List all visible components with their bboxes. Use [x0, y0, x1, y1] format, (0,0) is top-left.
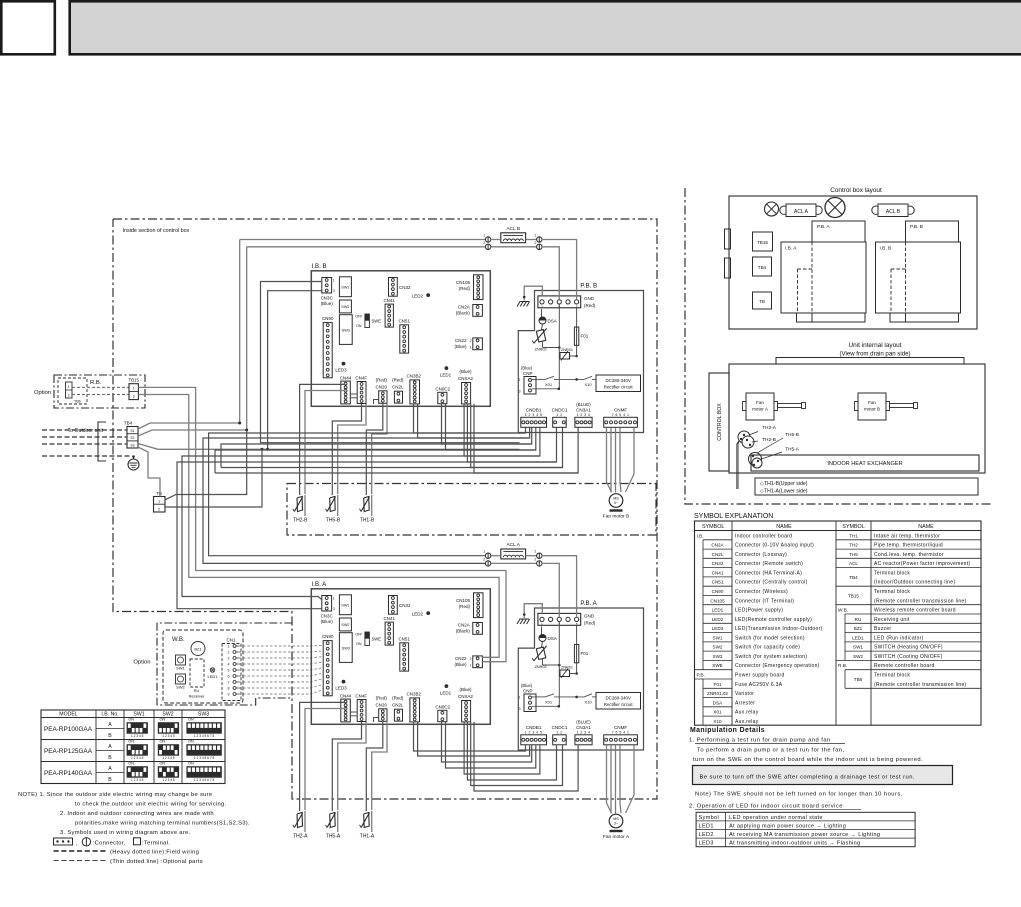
svg-text:Intake air temp. thermistor: Intake air temp. thermistor	[874, 533, 940, 539]
svg-text:Cond./eva. temp. thermistor: Cond./eva. temp. thermistor	[874, 552, 944, 558]
fan motor A wires	[607, 745, 612, 813]
svg-text:(Blue): (Blue)	[459, 687, 472, 692]
wire ACL A out1	[526, 555, 537, 557]
svg-text:1: 1	[158, 500, 160, 504]
wireless board W.B. option outline	[157, 623, 292, 705]
svg-text:Option: Option	[133, 659, 150, 665]
fan motor B wires	[607, 428, 612, 493]
svg-text:LED2: LED2	[712, 617, 724, 622]
svg-text:ACL A: ACL A	[794, 209, 809, 215]
svg-text:CN2L: CN2L	[392, 703, 404, 708]
svg-text:At transmitting indoor-outdoor: At transmitting indoor-outdoor units → F…	[729, 841, 860, 847]
svg-text:1: 1	[133, 387, 135, 391]
svg-text:1 2 3 4 5: 1 2 3 4 5	[525, 413, 543, 417]
svg-text:CN20: CN20	[376, 703, 388, 708]
terminal block TB15 (layout)	[753, 232, 773, 251]
svg-text:Fuse AC250V 6.3A: Fuse AC250V 6.3A	[735, 682, 783, 688]
stub CN20 (A)	[374, 718, 379, 723]
svg-text:7: 7	[228, 681, 230, 685]
svg-text:(Red): (Red)	[392, 377, 404, 382]
svg-text:A: A	[108, 722, 112, 728]
svg-text:TH5: TH5	[849, 552, 858, 557]
remote controller board R.B. option box	[54, 375, 145, 408]
page corner box	[1, 1, 55, 54]
svg-text:Manipulation Details: Manipulation Details	[690, 727, 765, 734]
svg-text:SW1: SW1	[341, 286, 349, 290]
fan motor A (layout)	[746, 393, 774, 420]
svg-text:NAME: NAME	[776, 524, 792, 530]
svg-text:Arrester: Arrester	[735, 700, 755, 706]
hinge left lower	[725, 258, 731, 278]
svg-text:SW1: SW1	[853, 645, 863, 650]
svg-text:Connector (Lossnay): Connector (Lossnay)	[735, 552, 787, 558]
svg-text:◇TH1-A(Lower side): ◇TH1-A(Lower side)	[760, 489, 808, 495]
connector CN3C (A)	[322, 596, 332, 612]
svg-text:CN90: CN90	[322, 316, 334, 321]
svg-text:1: 1	[519, 695, 521, 699]
wire S1 feed to ACL B	[239, 240, 241, 424]
connector CN105 (A)	[474, 593, 484, 618]
svg-text:DC280-340V: DC280-340V	[606, 378, 631, 383]
svg-text:F01: F01	[581, 651, 589, 656]
legend optional parts	[54, 860, 108, 862]
svg-text:CN2L: CN2L	[392, 385, 404, 390]
svg-text:Varistor: Varistor	[735, 691, 754, 697]
svg-text:TH1-B: TH1-B	[360, 518, 375, 524]
svg-text:1 2: 1 2	[556, 413, 562, 417]
svg-text:(Blue): (Blue)	[321, 619, 334, 624]
thermistor TH1-B	[371, 495, 373, 516]
svg-text:Rectifier circuit: Rectifier circuit	[604, 702, 634, 707]
switch SW1 (A)	[339, 595, 351, 615]
svg-text:CNMF: CNMF	[614, 725, 627, 730]
svg-text:1. Performing a test run for d: 1. Performing a test run for drain pump …	[689, 738, 831, 744]
svg-text:Buzzer: Buzzer	[874, 626, 891, 632]
svg-text:turn on the SWE on the control: turn on the SWE on the control board whi…	[693, 757, 923, 763]
svg-text:LED3: LED3	[699, 841, 714, 847]
svg-text:TB15: TB15	[757, 240, 768, 245]
svg-text:CN90: CN90	[712, 589, 724, 594]
svg-text:,: ,	[76, 841, 78, 847]
svg-text:Switch (for capacity code): Switch (for capacity code)	[735, 645, 800, 651]
connector CNDB1 (A)	[521, 735, 547, 745]
wire TB-2	[165, 449, 262, 507]
svg-text:TB4: TB4	[758, 265, 767, 270]
TH1 note box	[755, 478, 978, 495]
svg-text:(View from drain pan side): (View from drain pan side)	[839, 351, 910, 358]
svg-text:1 2 3 4 5 6 7 8: 1 2 3 4 5 6 7 8	[194, 756, 215, 760]
svg-text:LED1: LED1	[207, 674, 218, 679]
terminal block TB (layout)	[753, 292, 772, 309]
svg-text:CNDB1: CNDB1	[526, 407, 542, 412]
svg-text:Symbol: Symbol	[699, 815, 719, 821]
svg-text:X01: X01	[545, 700, 553, 705]
wire TB4 S1	[138, 423, 240, 429]
svg-text:Receiver: Receiver	[189, 694, 205, 699]
svg-text:(Thin dotted line) :Optional: (Thin dotted line) :Optional parts	[110, 859, 203, 865]
svg-text:P.B. B: P.B. B	[910, 224, 923, 230]
wire TH5-A leads	[332, 722, 361, 811]
svg-text:2. Operation of LED for indoor: 2. Operation of LED for indoor circuit b…	[689, 804, 843, 810]
connector CNDC1 (B)	[553, 417, 567, 427]
svg-text:ON: ON	[128, 740, 134, 744]
svg-text:(Red): (Red)	[584, 303, 596, 308]
board I.B. A (layout)	[781, 242, 866, 313]
svg-text:3. Symbols used in wiring diag: 3. Symbols used in wiring diagram above …	[60, 830, 191, 836]
svg-text:SYMBOL: SYMBOL	[702, 524, 724, 530]
svg-text:(Heavy dotted line):Field wiri: (Heavy dotted line):Field wiring	[110, 850, 199, 856]
wire TH2-A leads	[300, 702, 346, 811]
LED1 (A)	[445, 684, 449, 688]
svg-text:OFF: OFF	[355, 633, 363, 637]
wire TH2-B leads	[300, 384, 346, 495]
svg-text:SWE: SWE	[712, 663, 722, 668]
wire bundle I.B. B to P.B. B connectors	[414, 404, 526, 433]
reactor ACL B (layout)	[872, 206, 880, 214]
svg-text:2: 2	[534, 557, 536, 561]
svg-text:LED(Power supply): LED(Power supply)	[735, 608, 783, 614]
svg-text:LED1: LED1	[440, 372, 452, 377]
wire ACL A to terminals	[576, 609, 578, 618]
svg-text:Option: Option	[34, 390, 51, 396]
wire TH5-B leads	[332, 404, 361, 495]
symbol table outline	[695, 521, 982, 725]
svg-text::Terminal.: :Terminal.	[142, 841, 170, 847]
svg-text:Connector (0-10V Analog input): Connector (0-10V Analog input)	[735, 543, 814, 549]
aux relay X01 (A)	[532, 696, 545, 698]
terminal block TB6	[58, 378, 87, 404]
svg-text:To perform a drain pump or a t: To perform a drain pump or a test run fo…	[697, 747, 845, 753]
legend field wiring	[54, 850, 108, 852]
svg-text:ACL B: ACL B	[506, 226, 520, 232]
wire CNP pin3 (B)	[532, 388, 559, 390]
model DIP switch table	[41, 710, 225, 784]
legend connector symbols	[54, 838, 73, 845]
svg-text:3: 3	[333, 607, 335, 611]
svg-text:TH1-A: TH1-A	[360, 834, 375, 840]
connector CN51 (B)	[400, 325, 409, 353]
svg-text:4: 4	[228, 663, 230, 667]
connector CNMF (B)	[604, 417, 638, 427]
svg-text:3~: 3~	[614, 501, 618, 505]
svg-text:1: 1	[470, 664, 472, 668]
wire TB15-2 to I.B. A	[138, 395, 499, 658]
svg-text:CN44: CN44	[340, 694, 352, 699]
hinge left upper	[725, 229, 731, 249]
symbol table left rows	[703, 539, 732, 541]
svg-text:Rectifier circuit: Rectifier circuit	[604, 384, 634, 389]
aux relay X10 (B)	[575, 378, 578, 381]
wire ACL A out2	[537, 561, 542, 566]
svg-text:7 6 5 4 1: 7 6 5 4 1	[612, 730, 630, 734]
svg-text:(Blue): (Blue)	[321, 301, 334, 306]
wire TB6 to TB15	[72, 386, 129, 388]
thermistor TH5-B	[337, 495, 339, 516]
svg-text:GND: GND	[584, 614, 595, 619]
svg-text:I.B. B: I.B. B	[312, 263, 327, 270]
svg-text:R.B.: R.B.	[90, 380, 102, 386]
svg-text:P.B. B: P.B. B	[580, 283, 597, 290]
svg-text:SW2: SW2	[176, 685, 185, 690]
svg-text:CN3A1: CN3A1	[576, 725, 591, 730]
svg-text:ON: ON	[159, 718, 165, 722]
svg-text:ZNR02: ZNR02	[535, 348, 547, 352]
svg-text:CONTROL BOX: CONTROL BOX	[717, 403, 723, 441]
varistor ZNR01 (B)	[542, 341, 544, 348]
svg-text:CN51: CN51	[398, 319, 410, 324]
svg-text:Inside section of control box: Inside section of control box	[123, 228, 190, 234]
wire TH1-B leads	[366, 404, 383, 495]
capillary tube	[737, 441, 739, 489]
connector CN90 (A)	[323, 641, 332, 696]
control box side	[709, 373, 729, 471]
svg-text:I.B. No.: I.B. No.	[101, 712, 118, 718]
svg-text:TH5-B: TH5-B	[326, 518, 341, 524]
svg-text:CN2A: CN2A	[458, 305, 470, 310]
svg-text:ZNR01: ZNR01	[561, 666, 573, 670]
wire ACL A to P.B. A terminal 3	[542, 563, 560, 617]
svg-text:Remote controller board: Remote controller board	[874, 663, 935, 669]
svg-text:2: 2	[68, 394, 70, 398]
thermistor TH5-A	[337, 811, 339, 832]
wire ACL B to terminals	[576, 291, 578, 300]
svg-text:A: A	[108, 744, 112, 750]
svg-text:PEA-RP140GAA: PEA-RP140GAA	[44, 770, 93, 777]
svg-text:CNXA2: CNXA2	[458, 376, 474, 381]
svg-text:1 2 3 4 5: 1 2 3 4 5	[162, 778, 175, 782]
svg-text:P.B. A: P.B. A	[817, 224, 831, 230]
switch SW2 (A)	[339, 618, 351, 631]
arrester DSA (B)	[541, 309, 543, 317]
stub CN20 (B)	[374, 400, 379, 405]
svg-text:(Remote controller transmissio: (Remote controller transmission line)	[874, 682, 967, 688]
svg-text:S3: S3	[130, 443, 134, 447]
svg-text:9: 9	[228, 693, 230, 697]
svg-text:CN4F: CN4F	[355, 694, 367, 699]
svg-text:1 2 3 4 5: 1 2 3 4 5	[162, 734, 175, 738]
svg-text:Be sure to turn off the SWE af: Be sure to turn off the SWE after comple…	[700, 774, 915, 780]
svg-text:MODEL: MODEL	[59, 712, 78, 718]
wire TB4 S2	[138, 430, 247, 436]
svg-text:Connector (IT Terminal): Connector (IT Terminal)	[735, 598, 794, 604]
svg-text:1: 1	[483, 234, 485, 238]
svg-text:(Indoor/Outdoor connecting lin: (Indoor/Outdoor connecting line)	[874, 580, 955, 586]
svg-text:A: A	[108, 766, 112, 772]
svg-text:CN2A: CN2A	[458, 623, 470, 628]
svg-text:CN20: CN20	[376, 385, 388, 390]
svg-text:X10: X10	[584, 382, 592, 387]
svg-text:Control box layout: Control box layout	[830, 187, 882, 194]
svg-text:Indoor controller board: Indoor controller board	[735, 533, 792, 539]
svg-text:1: 1	[333, 596, 335, 600]
svg-text:SW2: SW2	[713, 645, 723, 650]
svg-text:LED1: LED1	[712, 608, 724, 613]
svg-text:(Blue): (Blue)	[459, 369, 472, 374]
svg-text:Unit internal layout: Unit internal layout	[849, 342, 902, 349]
svg-text:3: 3	[519, 390, 521, 394]
svg-text:Receiving unit: Receiving unit	[874, 617, 910, 623]
svg-text:ACL: ACL	[849, 561, 858, 566]
wire ACL A row1	[484, 555, 486, 557]
ground symbol P.B. A	[524, 604, 542, 618]
svg-text:X10: X10	[713, 719, 722, 724]
svg-text:Switch (for model selection): Switch (for model selection)	[735, 635, 805, 641]
svg-text:CN4F: CN4F	[355, 376, 367, 381]
svg-text:2: 2	[534, 241, 536, 245]
svg-text:TB15: TB15	[128, 378, 139, 383]
svg-text:Aux.relay: Aux.relay	[735, 719, 759, 725]
svg-text:CNP: CNP	[523, 689, 533, 694]
svg-text:Fan motor A: Fan motor A	[603, 834, 630, 840]
svg-text:TH2-A: TH2-A	[762, 425, 777, 431]
svg-text:SWE: SWE	[372, 319, 382, 324]
svg-text:SYMBOL: SYMBOL	[842, 524, 864, 530]
svg-text:CN41: CN41	[712, 570, 724, 575]
connector CN90 (B)	[323, 323, 332, 378]
svg-text:polarities,make wiring matchin: polarities,make wiring matching terminal…	[75, 821, 250, 827]
svg-text:LED1: LED1	[440, 690, 452, 695]
heat exchanger sensor	[749, 453, 762, 466]
svg-text:7 6 5 4 1: 7 6 5 4 1	[612, 413, 630, 417]
connector CN2A (A)	[473, 623, 483, 635]
svg-text:CNDC1: CNDC1	[552, 725, 568, 730]
svg-text:CN90: CN90	[322, 634, 334, 639]
fan motor B (layout)	[858, 393, 886, 420]
wire TB4 S3	[138, 444, 268, 450]
fan motor B	[609, 494, 623, 508]
svg-text:LED1: LED1	[852, 635, 864, 640]
svg-text:AC reactor(Power factor improv: AC reactor(Power factor improvement)	[874, 561, 970, 567]
svg-text:X01: X01	[713, 710, 722, 715]
LED3 (A)	[342, 680, 346, 684]
svg-text:CNXA2: CNXA2	[458, 694, 474, 699]
svg-text:P.B.: P.B.	[697, 673, 705, 679]
svg-text:Connector (Centrally control): Connector (Centrally control)	[735, 580, 808, 586]
svg-text:ON: ON	[128, 762, 134, 766]
svg-text:SW3: SW3	[198, 712, 209, 718]
svg-text:TH2-A: TH2-A	[293, 834, 308, 840]
jumper CN44-CN4F (B)	[350, 393, 357, 395]
svg-text:ON: ON	[188, 718, 194, 722]
svg-text:(Black): (Black)	[456, 310, 471, 315]
thermistor TH2-B	[304, 495, 306, 516]
svg-text:(Blue): (Blue)	[521, 366, 533, 371]
connector CN32 (B)	[389, 278, 398, 297]
wire TB4 ground link	[138, 447, 160, 497]
varistor ZNR02 (A)	[542, 642, 543, 648]
svg-text:2: 2	[133, 395, 135, 399]
svg-text:1 2 3 4: 1 2 3 4	[577, 413, 591, 417]
svg-text:CN41: CN41	[383, 298, 395, 303]
svg-text:ON: ON	[159, 762, 165, 766]
aux relay X10 (A)	[575, 696, 578, 699]
svg-text:SW2: SW2	[853, 654, 863, 659]
svg-text:(Red): (Red)	[376, 377, 388, 382]
svg-text:LED(Transmission Indoor-Outdoo: LED(Transmission Indoor-Outdoor)	[735, 626, 823, 632]
svg-text:ZNR01,02: ZNR01,02	[707, 691, 728, 696]
svg-text:ON: ON	[356, 642, 362, 646]
svg-text:CN22: CN22	[455, 656, 467, 661]
drain pan edge	[776, 358, 964, 365]
svg-text::Connector,: :Connector,	[93, 841, 126, 847]
svg-text:(Red): (Red)	[584, 620, 596, 625]
aux relay X01 (B)	[532, 378, 545, 380]
svg-text:I.B. A: I.B. A	[312, 581, 328, 588]
svg-text:CN105: CN105	[456, 598, 471, 603]
arrester DSA (A)	[541, 627, 543, 635]
receiving unit RU	[190, 659, 204, 687]
svg-text:1: 1	[534, 234, 536, 238]
wire ACL A to P.B. A terminal 5	[542, 556, 577, 609]
svg-text:I.B. B: I.B. B	[880, 246, 892, 252]
svg-text:DSA: DSA	[713, 700, 723, 705]
svg-text:LED3: LED3	[335, 686, 347, 691]
wire bundle I.B. A to P.B. A connectors	[414, 722, 526, 751]
svg-text:ON: ON	[159, 740, 165, 744]
svg-text:SW1: SW1	[176, 666, 185, 671]
svg-text:(BLUE): (BLUE)	[576, 402, 591, 407]
svg-text:1: 1	[68, 385, 70, 389]
svg-text:X01: X01	[545, 382, 553, 387]
svg-text:SW2: SW2	[341, 305, 349, 309]
svg-text:SWITCH (Heating ON/OFF): SWITCH (Heating ON/OFF)	[874, 645, 943, 651]
svg-text:2: 2	[470, 657, 472, 661]
svg-text:1: 1	[228, 645, 230, 649]
svg-text:P.B. A: P.B. A	[580, 600, 597, 607]
svg-text:B: B	[108, 733, 112, 739]
svg-text:1 2 3 4 5: 1 2 3 4 5	[131, 734, 144, 738]
svg-text:(Blue): (Blue)	[521, 683, 533, 688]
svg-text:Wireless remote controller boa: Wireless remote controller board	[874, 608, 956, 614]
connector CNDC1 (A)	[553, 735, 567, 745]
svg-text:ON: ON	[128, 718, 134, 722]
svg-text:1 2 3 4 5: 1 2 3 4 5	[525, 730, 543, 734]
wireless board W.B.	[163, 630, 243, 703]
svg-text:NOTE) 1. Since the outdoor si: NOTE) 1. Since the outdoor side electric…	[18, 792, 212, 798]
svg-text:Connector (HA Terminal-A): Connector (HA Terminal-A)	[735, 570, 802, 576]
connector CN41 (B)	[385, 304, 393, 327]
right layout region border	[685, 188, 993, 504]
svg-text:Connector (Remote switch): Connector (Remote switch)	[735, 561, 803, 567]
svg-text:Fan motor B: Fan motor B	[603, 513, 629, 519]
fan motor A	[609, 814, 623, 828]
wire ACL B out1	[526, 239, 537, 241]
wire TB-1	[165, 430, 247, 500]
svg-text:TH5-A: TH5-A	[785, 447, 800, 453]
svg-text:LED (Run indicator): LED (Run indicator)	[874, 635, 924, 641]
svg-text:SYMBOL EXPLANATION: SYMBOL EXPLANATION	[694, 513, 773, 520]
switch SW2 (W.B.)	[176, 674, 186, 684]
svg-text:Note) The SWE should not be le: Note) The SWE should not be left turned …	[695, 791, 903, 797]
svg-text:CNDC1: CNDC1	[552, 407, 568, 412]
svg-text:LED2: LED2	[699, 832, 714, 838]
svg-text:2: 2	[228, 651, 230, 655]
svg-text:1 2 3 4 5 6 7 8: 1 2 3 4 5 6 7 8	[194, 734, 215, 738]
svg-text:CN32: CN32	[712, 561, 724, 566]
svg-text:2: 2	[158, 508, 160, 512]
thermistor box B	[287, 484, 656, 536]
wire CNP pin3 (A)	[532, 705, 559, 707]
connector CN22 (A)	[473, 656, 483, 668]
svg-text:6: 6	[228, 675, 230, 679]
svg-text:I.B.: I.B.	[697, 533, 704, 539]
board P.B. B lower part (layout)	[890, 313, 959, 322]
svg-text:1 2 3 4 5: 1 2 3 4 5	[131, 778, 144, 782]
svg-text:PEA-RP125GAA: PEA-RP125GAA	[44, 748, 93, 755]
svg-text:TB15: TB15	[848, 594, 859, 599]
svg-text:LED2: LED2	[412, 293, 424, 298]
svg-text:TB4: TB4	[124, 421, 133, 426]
